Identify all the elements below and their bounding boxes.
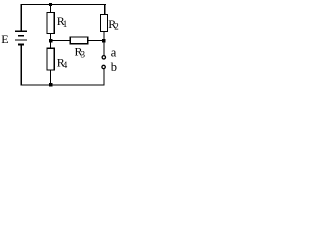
resistor R2 [101,14,108,31]
wire R4 bottom stub [50,70,51,85]
wire top horizontal [21,4,106,5]
wire left vertical lower (battery bottom lead) [21,45,22,85]
battery E plate short upper [18,35,24,37]
wire left vertical upper (battery top lead) [21,4,22,31]
battery E plate long top [15,31,27,32]
battery E plate long lower [15,39,27,40]
terminal a [102,56,105,59]
wire down to terminal a [103,41,104,56]
wire below terminal b [103,69,104,86]
wire bottom horizontal [21,84,105,85]
node dot mid-right junction [102,39,105,42]
svg-text:3: 3 [81,50,86,60]
node dot bottom junction [49,83,52,86]
svg-text:1: 1 [63,19,68,29]
wire R2 bottom stub [103,32,104,40]
wire R2 top stub [104,4,105,15]
node dot top (R1 top junction) [49,3,52,6]
wire R1 top stub [50,4,51,13]
wire R4 top stub [50,41,51,49]
svg-text:2: 2 [114,22,119,32]
resistor R4 [47,48,54,70]
svg-text:a: a [111,45,117,59]
svg-text:E: E [1,32,8,46]
wire middle horizontal [51,40,105,41]
resistor R3 [70,37,88,44]
resistor R1 [47,12,54,33]
terminal b [102,65,105,68]
svg-text:b: b [111,60,117,74]
node dot mid-left junction [49,39,52,42]
battery E plate short bottom [18,44,24,46]
svg-text:4: 4 [63,60,68,70]
wire R1 bottom stub [50,34,51,41]
